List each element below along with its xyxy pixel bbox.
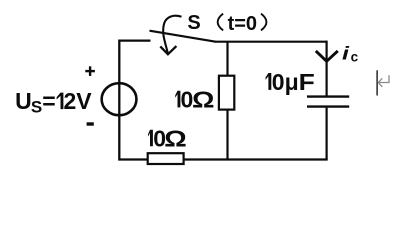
svg-text:0μ: 0μ (272, 69, 299, 95)
svg-text:2V: 2V (64, 88, 93, 114)
svg-text:U: U (15, 88, 32, 114)
svg-text:=: = (42, 88, 55, 114)
svg-text:S: S (31, 98, 42, 117)
svg-text:Ω: Ω (164, 127, 186, 152)
svg-text:F: F (299, 70, 315, 95)
svg-text:S: S (187, 12, 200, 34)
svg-text:Ω: Ω (192, 88, 214, 113)
svg-text:t=0: t=0 (228, 13, 257, 35)
svg-text:i: i (342, 43, 350, 64)
svg-text:c: c (351, 49, 359, 64)
